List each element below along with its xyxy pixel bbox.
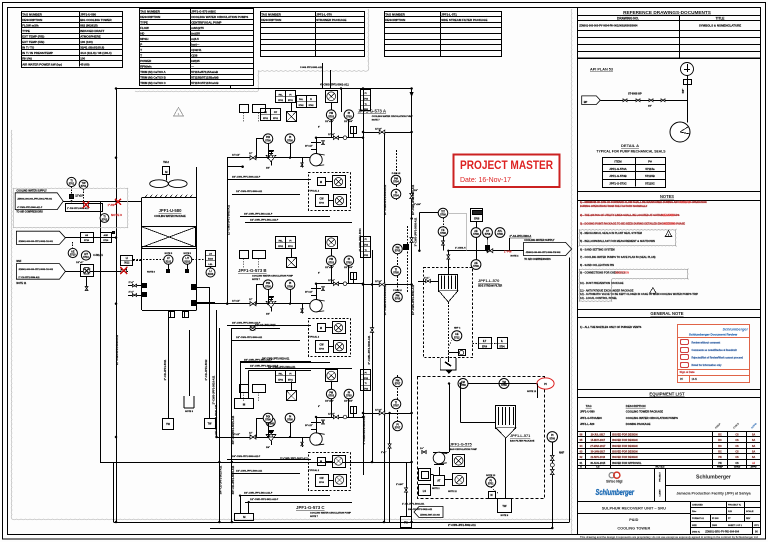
svg-text:100: 100 [80,57,85,61]
svg-text:10) - DUST PREVENTION PACKAGE: 10) - DUST PREVENTION PACKAGE [580,281,624,285]
svg-text:15-MAY-2017: 15-MAY-2017 [591,439,606,442]
svg-text:5703: 5703 [346,115,352,118]
svg-text:RH (%): RH (%) [22,57,32,61]
svg-text:29-JUL-2017: 29-JUL-2017 [591,434,606,437]
svg-text:5703: 5703 [328,395,334,398]
discharge fittings JPF1-G-573 C [311,422,321,424]
svg-text:10"-CWR-JPF1-5003-A11: 10"-CWR-JPF1-5003-A11 [383,184,387,215]
svg-text:M: M [320,326,322,330]
svg-text:TAG NUMBER: TAG NUMBER [22,12,43,16]
filter inlet line [418,281,439,283]
extra FE FIT boxes pump A [261,109,271,121]
svg-text:2"-AS-JPF1-5003-A: 2"-AS-JPF1-5003-A [510,235,532,238]
svg-text:3"-CWR-JPF1-5007-A11: 3"-CWR-JPF1-5007-A11 [280,458,308,461]
svg-text:1/2"x3/4": 1/2"x3/4" [325,266,334,269]
svg-text:NOTES: NOTES [660,194,674,199]
svg-text:SIDE STREAM FILTER: SIDE STREAM FILTER [478,285,503,288]
wire suction riser pump A [227,158,229,304]
svg-text:POWER: POWER [140,59,152,63]
svg-text:5701: 5701 [81,185,87,188]
GENERAL NOTE band [577,309,761,311]
analyzer boxes on F2 line [81,233,94,243]
aux label line 1 JPF1-G-573 A [227,179,311,181]
svg-text:5707: 5707 [395,427,401,430]
aux label line 2 JPF1-G-573 A [232,194,300,196]
seal pot box 2 JPF1-G-573 A [333,176,346,188]
svg-text:12"x8": 12"x8" [375,281,382,283]
detail sketch: pump circle [670,122,690,142]
detail sketch: vertical line [687,76,689,123]
red deleted valve X1 [83,203,88,207]
wire bottom drain header [114,522,570,524]
instrument PDI JPF1-G-573 A [263,134,273,144]
svg-text:TYPE: TYPE [140,20,148,24]
instrument FM TM circles [458,379,468,389]
wire CWS supply line out [448,250,524,252]
svg-text:M: M [320,459,322,463]
svg-text:1/2"-CWD-JPF1-5011-A11-P: 1/2"-CWD-JPF1-5011-A11-P [250,365,279,368]
instrument PI JPF1-G-573 C [285,413,295,423]
fan cooler square JPF1-G-573 A [326,91,338,103]
svg-text:TRIM (M) CaTO3 A: TRIM (M) CaTO3 A [140,70,166,74]
svg-text:CS: CS [735,451,739,454]
svg-text:3/4": 3/4" [266,167,270,170]
svg-text:COOLING TOWER: COOLING TOWER [617,527,650,531]
gate valve suction JPF1-G-573 C [250,435,256,439]
svg-text:P: P [140,42,142,46]
svg-text:TO AIR COMPRESSORS: TO AIR COMPRESSORS [524,258,551,261]
svg-text:5700: 5700 [287,419,293,422]
svg-text:5709: 5709 [473,265,479,268]
svg-text:EXT TEMP (F/B): EXT TEMP (F/B) [22,35,44,39]
svg-text:1/2"-CWS-JPF1-5009-A11: 1/2"-CWS-JPF1-5009-A11 [236,190,263,193]
svg-text:JPF1-U-580: JPF1-U-580 [580,409,595,413]
wire header x384 [384,130,386,522]
svg-text:5751: 5751 [488,483,494,486]
wire top drop 341 [341,89,343,113]
svg-text:PN: PN [718,462,722,465]
red deleted valve X3 [121,269,127,273]
svg-text:5760: 5760 [550,437,556,440]
fan cooler square JPF1-G-573 C [326,370,338,382]
svg-text:3/4"-CD-JPF1-5023-A11: 3/4"-CD-JPF1-5023-A11 [219,465,223,494]
wire dosing top line [468,383,537,385]
svg-text:EQUIPMENT LIST: EQUIPMENT LIST [649,391,685,396]
wire CWS filter branch riser [419,212,421,250]
instrument PI JPF1-G-573 B [285,280,295,290]
svg-text:4) - MECHANICAL SEALS IN PLANT: 4) - MECHANICAL SEALS IN PLANT SEAL SYST… [580,231,642,235]
svg-text:DELETED: DELETED [663,213,675,217]
sight glass square JPF1-G-573 B [287,258,297,268]
svg-text:ISSUED FOR DESIGN: ISSUED FOR DESIGN [612,451,638,454]
AT junction [486,250,488,252]
svg-text:Rejected/Not of Review/Work ca: Rejected/Not of Review/Work cannot proce… [692,357,744,360]
svg-text:5/8": 5/8" [681,88,685,94]
svg-text:EXT TEMP (F/B): EXT TEMP (F/B) [22,40,44,44]
svg-text:NNF: NNF [16,260,21,263]
svg-text:JPF1-G-573C: JPF1-G-573C [609,182,626,186]
filter JPF1-L-570 vessel [439,275,458,292]
seal pot box 4 JPF1-G-573 A [334,195,347,207]
instrument PM near drain [266,417,275,426]
svg-text:5700: 5700 [265,139,271,142]
wire left CWS riser [116,89,118,523]
svg-text:2"x1": 2"x1" [129,291,134,293]
analyzer circles below [68,248,77,257]
pump discharge check valve JPF1-G-573 B [316,284,318,300]
svg-text:3/4"-CWD-JPF1-5010-A11-P: 3/4"-CWD-JPF1-5010-A11-P [244,212,273,215]
svg-text:JPF1: JPF1 [754,525,760,527]
svg-text:5703: 5703 [346,261,352,264]
svg-text:APPD: APPD [751,466,757,469]
tower makeup tap 2 [128,295,142,297]
svg-text:57115B: 57115B [645,174,655,178]
svg-text:5701: 5701 [278,379,284,381]
svg-text:SIDE STREAM FILTER PACKAGE: SIDE STREAM FILTER PACKAGE [441,18,487,22]
svg-text:44.3 (111.8) / 38 (100.4): 44.3 (111.8) / 38 (100.4) [80,51,111,55]
svg-text:57115C: 57115C [645,182,655,186]
svg-text:RC: RC [718,439,722,442]
svg-text:57115a/57115Aa/aB: 57115a/57115Aa/aB [191,70,218,74]
instrument TW on F1 line [79,180,88,189]
relief valve JPF1-G-573 C [269,433,273,437]
cloud around F1 group [13,188,128,228]
svg-text:22-NOV-2016: 22-NOV-2016 [590,456,605,459]
svg-text:3/4"-CD-JPF1-5024-A11: 3/4"-CD-JPF1-5024-A11 [231,465,235,494]
svg-text:14"x12": 14"x12" [232,433,240,436]
svg-text:LSL: LSL [208,264,213,266]
svg-text:GENERAL NOTE: GENERAL NOTE [650,311,683,316]
svg-text:PF: PF [680,378,684,381]
svg-text:TAG NUMBER: TAG NUMBER [385,12,406,16]
wire link C to header [363,413,412,415]
svg-text:10"-CWR-JPF1-5003-A11: 10"-CWR-JPF1-5003-A11 [383,284,387,315]
svg-text:LI: LI [126,258,128,260]
open drain funnel [189,330,191,396]
level dashed link across basin [133,259,164,261]
svg-text:6) - SAND SETTING SYSTEM: 6) - SAND SETTING SYSTEM [580,248,615,252]
aux label line 4 JPF1-G-573 B [245,368,352,370]
svg-text:FAL: FAL [279,239,284,242]
svg-text:5703: 5703 [346,395,352,398]
svg-text:1/2"-CWD-JPF1-5011-A11-P: 1/2"-CWD-JPF1-5011-A11-P [250,219,279,222]
svg-text:5710: 5710 [84,240,90,242]
svg-text:5712: 5712 [454,336,460,339]
svg-text:2"x1": 2"x1" [129,282,134,284]
wire vertical 232 [231,328,233,522]
discharge fittings JPF1-G-573 B [311,288,321,290]
wire link A to header [363,132,412,134]
svg-text:DESCRIPTION: DESCRIPTION [385,18,405,22]
svg-text:DESCRIPTION: DESCRIPTION [22,18,42,22]
svg-text:5700: 5700 [265,419,271,422]
svg-text:1/2"-CWS-JPF1-5020-A11: 1/2"-CWS-JPF1-5020-A11 [214,404,218,435]
svg-text:TYPICAL 2: TYPICAL 2 [308,469,320,472]
svg-text:Comments as noted/Revise & Res: Comments as noted/Revise & Resubmit [692,349,737,352]
pump symbol JPF1-G-573 A [310,154,322,166]
svg-text:TYPICAL FOR PUMP MECHANICAL SE: TYPICAL FOR PUMP MECHANICAL SEALS [596,150,666,154]
sight glass square JPF1-G-573 C [287,391,297,401]
svg-text:JPF1-L-571: JPF1-L-571 [441,12,457,16]
svg-text:5703: 5703 [328,261,334,264]
stacked tags JPF1-G-573 A [361,90,371,111]
svg-text:C-008 JPF1-5001-A11: C-008 JPF1-5001-A11 [300,66,323,69]
svg-text:1/2"-CWD-JPF1-5011-A11-P: 1/2"-CWD-JPF1-5011-A11-P [250,498,279,501]
header corner arrow [410,92,414,97]
aux label line 4 JPF1-G-573 A [245,222,352,224]
svg-text:CS: CS [735,434,739,437]
junction dots JPF1-G-573 C [315,416,317,418]
svg-text:ST-6008 HP: ST-6008 HP [628,93,642,96]
svg-text:NOTE 12: NOTE 12 [448,491,458,493]
wire right bottom riser NNF [552,431,554,528]
svg-text:PROJECT N.: PROJECT N. [728,505,742,507]
svg-text:NOTE 2: NOTE 2 [432,488,440,490]
svg-text:REV: REV [746,518,751,520]
svg-text:M: M [320,180,322,184]
svg-text:API PLAN 53: API PLAN 53 [590,68,613,72]
svg-text:4"-CWS-JPF1-5001-A11: 4"-CWS-JPF1-5001-A11 [320,83,349,87]
svg-text:2"x3/4": 2"x3/4" [396,483,404,486]
svg-text:NOTE 8: NOTE 8 [147,271,156,273]
svg-text:INJECTION: INJECTION [615,270,629,274]
svg-text:3/4": 3/4" [266,446,270,449]
wire bottom return header [100,462,411,464]
wire dosing loop left drop [449,384,451,453]
equipment data table T4 side stream filter [385,12,502,57]
instrument PI JPF1-G-573 A [285,134,295,144]
wire aux line 2 [249,370,311,372]
svg-text:12"x10": 12"x10" [75,196,84,198]
dosing pump symbol [433,452,445,464]
dashed instrument leads right of pump C [397,375,399,430]
svg-text:14"x12": 14"x12" [232,154,240,157]
svg-text:5700: 5700 [287,139,293,142]
svg-text:NOTE 13: NOTE 13 [527,391,537,393]
svg-text:PN: PN [718,456,722,459]
svg-text:Schlumberger: Schlumberger [596,488,635,497]
dashed instrument leads right of pump A [396,150,398,200]
svg-text:12"-CWS-JPF1-5001-A11: 12"-CWS-JPF1-5001-A11 [227,204,231,235]
svg-text:5706: 5706 [395,298,401,301]
svg-text:862 (802615): 862 (802615) [80,23,97,27]
detail sketch: flag [582,96,601,105]
NOTES band [577,191,761,193]
svg-text:INDUCED DRAFT: INDUCED DRAFT [80,29,104,33]
svg-text:5704: 5704 [499,345,505,348]
wire tower drain 1 [168,313,170,418]
seal pot box 2 JPF1-G-573 C [333,456,346,468]
wire link B to header [363,284,412,286]
svg-text:SA: SA [752,456,756,459]
svg-text:CHKD: CHKD [734,467,741,469]
svg-text:3/4"-CWD-JPF1-5010-A11-P: 3/4"-CWD-JPF1-5010-A11-P [244,492,273,495]
pump JPF1-G-573 B suction line [196,303,310,305]
wire top label risers [322,63,324,89]
level instrument circle below stack [206,268,215,277]
warning triangle note flag [174,108,184,117]
svg-text:5701: 5701 [263,118,269,120]
analyzer circles AE AT ATL [471,228,481,238]
motor supply box M [235,399,254,409]
svg-text:JPF1-L-570: JPF1-L-570 [478,278,500,283]
svg-text:NOTE 5: NOTE 5 [165,253,173,255]
drain stub JPF1-G-573 C [302,437,304,447]
svg-text:5) - BELLOWS/BALLAST FOR MEASU: 5) - BELLOWS/BALLAST FOR MEASUREMENT & S… [580,239,655,243]
svg-text:JZN001-000-000-PY-0004-PH-001/: JZN001-000-000-PY-0004-PH-001/0002/0003/… [579,24,638,28]
junction dot [71,200,73,202]
svg-text:NOTE 4: NOTE 4 [511,255,520,258]
svg-text:JPF1-U-580: JPF1-U-580 [80,12,96,16]
svg-text:COOLING WATER CIRCULATION PUMP: COOLING WATER CIRCULATION PUMP [372,115,414,118]
dosing box 2 (circle) [453,455,465,467]
svg-text:CHECKED: CHECKED [692,505,703,507]
drain funnel box TW [505,438,507,498]
svg-text:NNF: NNF [559,452,565,455]
svg-text:ISSUED FOR APPROVAL: ISSUED FOR APPROVAL [612,462,642,465]
svg-text:2"-CD-JPF1-5002-A11: 2"-CD-JPF1-5002-A11 [402,503,425,506]
svg-text:8": 8" [318,127,320,129]
svg-text:PROJECT: PROJECT [659,472,661,482]
svg-text:30-AUG-2015: 30-AUG-2015 [590,462,606,465]
svg-text:12": 12" [249,153,252,155]
svg-text:5701: 5701 [278,100,284,102]
left bottom TW box [406,462,408,516]
svg-text:8": 8" [318,406,320,408]
svg-text:F-506 HI: F-506 HI [393,290,402,292]
aux label line 3 JPF1-G-573 C [240,495,330,497]
svg-text:3/4"-CWS-JPF1-5008-A11-P: 3/4"-CWS-JPF1-5008-A11-P [232,455,261,458]
svg-text:DESCRIPTION: DESCRIPTION [261,18,281,22]
title block right grid [691,501,761,503]
svg-text:SHEET 1 OF 1: SHEET 1 OF 1 [728,525,743,527]
svg-text:CS: CS [596,466,600,469]
svg-text:NOTE 7: NOTE 7 [372,120,381,122]
svg-text:27-MAR-2017: 27-MAR-2017 [590,445,606,448]
svg-text:Schlumberger Document Review: Schlumberger Document Review [689,332,738,336]
svg-text:M: M [491,494,493,497]
svg-text:CS: CS [735,439,739,442]
wire basin outlet to pump C [216,310,218,437]
svg-text:COOLING TOWER PACKAGE: COOLING TOWER PACKAGE [626,409,663,413]
dosing box 3 [434,476,445,486]
svg-text:3/4"-CWS-JPF1-5008-A11-P: 3/4"-CWS-JPF1-5008-A11-P [232,322,261,325]
svg-text:BAG CIRCULATION PUMP: BAG CIRCULATION PUMP [450,448,478,451]
sample box [70,195,74,199]
svg-text:1/2"x3/4": 1/2"x3/4" [325,400,334,403]
aux label line 3 JPF1-G-573 B [240,362,330,364]
seal plan dashed box JPF1-G-573 A [309,173,351,211]
svg-text:Date: 16-Nov-17: Date: 16-Nov-17 [460,175,511,184]
svg-text:COOLING WATER PACKAGE: COOLING WATER PACKAGE [154,215,186,218]
svg-text:NOTE 3: NOTE 3 [111,213,122,217]
svg-text:57115C/57115Ca/cB: 57115C/57115Ca/cB [191,81,218,85]
svg-text:5704: 5704 [393,195,399,198]
svg-text:Schlumberger: Schlumberger [722,328,748,332]
LI box near tower [121,256,133,266]
svg-text:LG: LG [209,254,212,256]
equipment data table T2 circulation pumps [140,9,254,86]
svg-text:NNF C: NNF C [454,328,461,330]
svg-text:JPF1-G-573 A: JPF1-G-573 A [358,109,387,114]
svg-text:TRIM (M) CaTO3 B: TRIM (M) CaTO3 B [140,75,166,79]
seal pot box 1 JPF1-G-573 C [318,458,326,466]
cooling boxes top left JPF1-G-573 B [240,251,249,259]
svg-text:COOLING WATER CIRCULATION PUMP: COOLING WATER CIRCULATION PUMP [310,512,352,515]
instrument circles left of filter [438,227,448,237]
svg-text:3/4"-CD-JPF1-5022-A11: 3/4"-CD-JPF1-5022-A11 [408,508,433,511]
FAL FI boxes JPF1-G-573 C [276,371,286,383]
svg-text:5710: 5710 [103,240,109,242]
svg-text:5750: 5750 [501,384,507,387]
svg-text:4"-CWS-JPF1-5000-A11-P: 4"-CWS-JPF1-5000-A11-P [17,206,43,209]
wire aux line 1 [240,361,311,363]
svg-text:F-506 HI: F-506 HI [392,173,401,175]
stacked tags JPF1-G-573 C [361,370,371,391]
svg-text:4"-CWS-JPF1-5004: 4"-CWS-JPF1-5004 [358,228,362,252]
filter drop valve [447,255,450,259]
drain stub JPF1-G-573 A [302,158,304,168]
PROJECT MASTER stamp [454,155,560,188]
cloud around notes 4-5 [579,230,676,247]
svg-text:JPF1-G-573B: JPF1-G-573B [609,174,626,178]
svg-text:5710: 5710 [83,256,89,259]
red clouded instrument [537,378,554,389]
pump discharge check valve JPF1-G-573 C [316,417,318,433]
pump JPF1-G-573 A suction line [227,157,310,159]
svg-text:Noted for information only: Noted for information only [692,364,723,367]
detail sketch: tick valves [623,99,627,102]
relief valve JPF1-G-573 A [269,154,273,158]
dosing box 1 [419,469,431,481]
svg-text:12": 12" [249,299,252,301]
filter drain dashed [448,302,450,356]
aux label line 4 JPF1-G-573 C [245,502,352,504]
drain box TW1 [163,419,174,430]
drain valve below quill [86,277,88,287]
svg-text:1"-PW: 1"-PW [504,251,512,254]
svg-text:1"-PW-JPF1-5003-A11: 1"-PW-JPF1-5003-A11 [67,207,89,210]
right panel divider [577,8,579,535]
tower fan blades [150,180,169,188]
svg-text:JPF1-L-571: JPF1-L-571 [510,434,530,438]
svg-text:ISSUED FOR DESIGN: ISSUED FOR DESIGN [612,439,638,442]
svg-text:DESCRIPTION: DESCRIPTION [626,404,646,408]
riser valve cluster [410,193,414,198]
svg-text:Jamacia Production Facility (J: Jamacia Production Facility (JPF) at Sah… [676,492,751,496]
svg-text:7) - COOLING WATER PUMPS TO SA: 7) - COOLING WATER PUMPS TO SAVE PLAN 53… [580,255,656,259]
svg-text:5702: 5702 [309,105,315,107]
wire drain riser x389 [389,413,391,522]
svg-text:30-JAN-2017: 30-JAN-2017 [591,451,606,454]
svg-text:5701: 5701 [69,183,75,186]
wire from F2 [66,237,116,239]
svg-text:CS: CS [735,445,739,448]
svg-text:FAL: FAL [279,373,284,376]
detail sketch: orifice box [684,80,692,85]
svg-text:TAG NUMBER: TAG NUMBER [140,9,161,13]
svg-text:ATMOSPHERE: ATMOSPHERE [80,35,101,39]
instrument below F1 [100,214,109,223]
Schlumberger document review stamp [678,325,750,383]
aux label line 1 JPF1-G-573 C [227,459,311,461]
svg-text:20"x12": 20"x12" [305,292,313,294]
svg-text:BP: BP [584,100,588,104]
aux label line 1 JPF1-G-573 B [227,325,311,327]
svg-text:TAG: TAG [586,404,593,408]
wire CWR main right riser [411,89,413,523]
svg-text:45 (60): 45 (60) [80,62,89,66]
